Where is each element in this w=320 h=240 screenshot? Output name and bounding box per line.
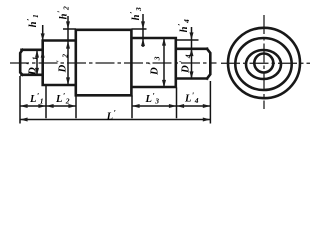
node h2 D2: shared dimension line [67,16,69,85]
svg-text:L′: L′ [106,108,117,122]
node L3: dimension line [132,105,177,107]
wire: extension lines for length dimensions [20,76,210,124]
node: end view inner circle [254,54,273,73]
svg-text:h′3: h′3 [129,7,143,21]
node h4 D4: shared dimension line [191,27,193,79]
svg-text:D′3: D′3 [147,54,161,76]
node L: overall length dimension line [20,119,210,121]
svg-text:D′1: D′1 [25,54,39,76]
node: shaft outline (stepped shaft side view) [20,30,210,96]
node h1: dimension line [42,25,44,41]
node L1: dimension line [20,105,46,107]
node: end view second circle [235,38,291,90]
svg-text:L′1: L′1 [29,92,44,106]
node D1: dimension line [36,51,38,75]
svg-text:h′1: h′1 [26,14,40,28]
svg-text:D′2: D′2 [55,52,69,74]
svg-text:h′2: h′2 [56,6,70,20]
node: end view outer circle [228,28,300,98]
wire: extension of third step top, right [176,39,199,41]
node D3: dimension line [163,39,165,87]
svg-text:h′4: h′4 [177,19,191,33]
svg-text:L′3: L′3 [145,92,160,106]
node L4: dimension line [177,105,211,107]
node: end view third circle [246,50,281,79]
wire: end view vertical centerline [263,15,265,109]
wire: extension of big step top, right [132,28,147,30]
wire: shaft centerline (side view) [10,62,217,64]
svg-text:D′4: D′4 [178,52,192,74]
wire: end view horizontal centerline [221,62,310,64]
svg-text:L′2: L′2 [55,92,70,106]
svg-text:L′4: L′4 [184,91,199,105]
node L2: dimension line [46,105,76,107]
node h3: dimension line [142,14,144,47]
wire: extension of big step top, left [63,28,76,30]
